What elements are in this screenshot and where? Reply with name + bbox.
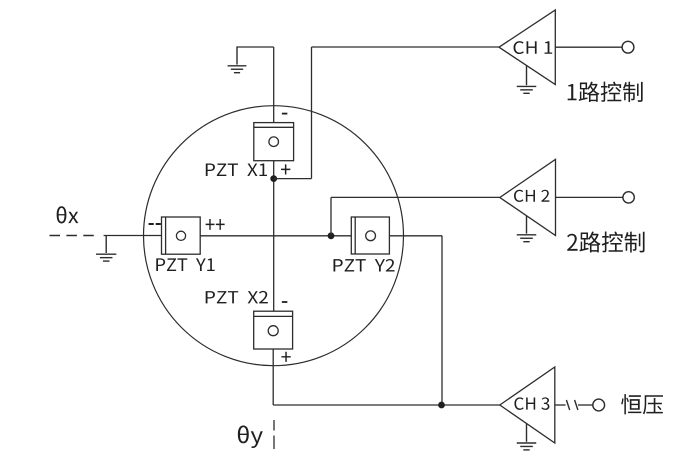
wire: CH3 input horizontal [273, 404, 500, 406]
wire: CH2 input horizontal [331, 196, 500, 198]
PZT Y1 [162, 217, 201, 254]
junction node C (CH3 input) [438, 402, 445, 409]
θx axis dashed line [50, 235, 98, 237]
PZT X1 [254, 123, 294, 161]
wire: node B riser to CH2 [330, 197, 332, 235]
label CH 1 [514, 41, 553, 54]
polarity ++ (PZT Y1 right) [206, 219, 225, 230]
op-amp CH1 [499, 10, 555, 85]
op-amp CH2 [500, 159, 556, 235]
label PZT Y2 [333, 259, 394, 271]
PZT X2 [254, 311, 293, 349]
label PZT X1 [206, 163, 267, 176]
ground (CH1) [526, 66, 528, 86]
polarity - (PZT X1 top) [282, 113, 287, 115]
label CH 3 [514, 397, 549, 410]
wire: horizontal axis PZT Y1 to PZT Y2 [200, 235, 351, 237]
wire: PZT X1 top electrode up [273, 47, 275, 123]
polarity + (PZT X2 bottom) [281, 352, 290, 362]
break symbol (CH3 output chopper) [566, 400, 569, 410]
wire: PZT X2 bottom down [272, 349, 274, 405]
wire: CH3 feed vertical drop [441, 236, 443, 405]
label 恒压 [621, 394, 663, 414]
PZT Y2 [351, 217, 389, 254]
wire: top jog to ground [237, 46, 274, 48]
label 1路控制 [568, 82, 643, 102]
op-amp CH3 [500, 367, 555, 443]
ground (CH2) [526, 216, 528, 234]
θy axis dashed line [273, 420, 275, 431]
wire: CH2 output [556, 196, 624, 198]
wire: CH1 output [555, 46, 622, 48]
terminal T3 (CH3 constant-voltage) [593, 399, 605, 411]
label θx [57, 206, 79, 223]
ground (CH3) [526, 423, 528, 441]
ground (left, PZT Y1 negative) [105, 236, 107, 254]
junction node A (X1 signal tap) [270, 175, 277, 182]
wire: vertical axis PZT X1 bottom to PZT X2 top [273, 161, 275, 312]
terminal T2 (CH2 output) [623, 192, 634, 203]
label θy [238, 425, 263, 448]
wire: CH3 output to terminal [578, 404, 593, 406]
polarity + (PZT X1 bottom) [281, 164, 290, 174]
label CH 2 [514, 190, 549, 202]
wire: CH3 output stub [555, 404, 566, 406]
scanner tube (big circle) [144, 106, 404, 366]
label PZT Y1 [156, 258, 214, 271]
label 2路控制 [567, 232, 644, 253]
wire: CH1 input horizontal [312, 46, 500, 48]
polarity -- (PZT Y1 left) [149, 223, 161, 225]
wire: PZT Y2 output right [389, 235, 442, 237]
wire: ground tap to PZT Y1 [104, 235, 162, 237]
junction node B (Y signal tap to CH2) [328, 232, 335, 239]
label PZT X2 [206, 291, 268, 303]
terminal T1 (CH1 output) [622, 41, 634, 53]
ground (top, PZT X1 negative) [236, 46, 238, 64]
wire: CH1 riser vertical [311, 47, 313, 179]
polarity - (PZT X2 top) [282, 301, 287, 303]
wire: node A to CH1 riser [274, 178, 312, 180]
